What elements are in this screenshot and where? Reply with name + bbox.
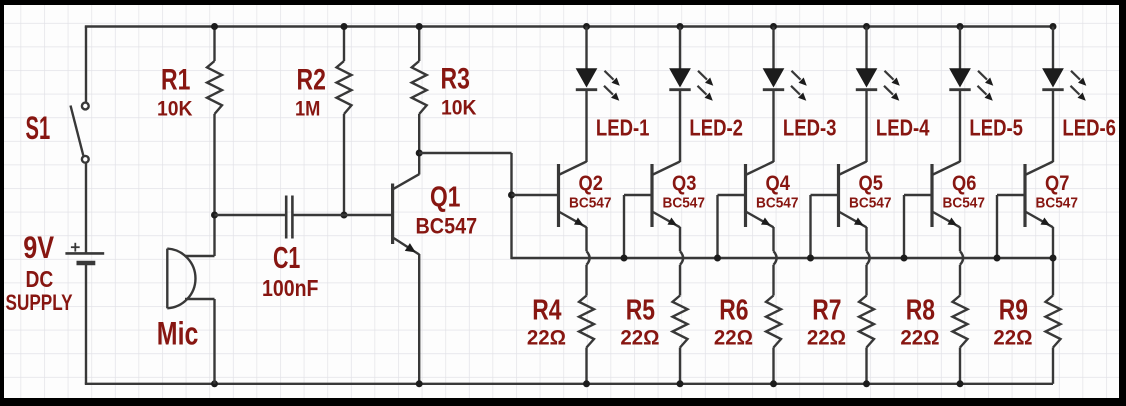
svg-text:22Ω: 22Ω [620,326,659,350]
svg-text:R3: R3 [441,62,470,95]
svg-text:LED-1: LED-1 [596,116,650,142]
svg-text:R4: R4 [532,293,562,326]
svg-text:LED-5: LED-5 [969,116,1023,142]
svg-text:22Ω: 22Ω [714,326,753,350]
svg-text:S1: S1 [26,110,51,146]
svg-text:BC547: BC547 [1036,195,1078,212]
svg-text:LED-2: LED-2 [689,116,743,142]
svg-text:9V: 9V [23,230,54,265]
svg-text:22Ω: 22Ω [993,326,1032,350]
svg-text:BC547: BC547 [663,195,705,212]
svg-text:LED-6: LED-6 [1062,116,1116,142]
svg-text:10K: 10K [441,96,477,120]
svg-text:Q2: Q2 [579,172,603,196]
svg-text:Mic: Mic [157,317,199,353]
svg-text:100nF: 100nF [262,276,318,302]
svg-text:BC547: BC547 [943,195,985,212]
svg-text:C1: C1 [273,240,300,275]
svg-text:R9: R9 [999,293,1028,326]
svg-text:22Ω: 22Ω [807,326,846,350]
svg-text:SUPPLY: SUPPLY [6,291,73,316]
svg-text:Q4: Q4 [766,172,790,196]
svg-text:10K: 10K [157,97,193,121]
svg-text:22Ω: 22Ω [527,326,566,350]
svg-text:BC547: BC547 [569,195,611,212]
svg-text:Q3: Q3 [672,172,696,196]
svg-text:Q6: Q6 [952,172,976,196]
svg-text:R7: R7 [812,293,841,326]
svg-text:R6: R6 [719,293,748,326]
svg-text:BC547: BC547 [756,195,798,212]
svg-text:R8: R8 [906,293,935,326]
svg-text:DC: DC [26,266,54,292]
svg-text:BC547: BC547 [849,195,891,212]
svg-text:22Ω: 22Ω [900,326,939,350]
svg-text:Q7: Q7 [1045,172,1069,196]
svg-text:R2: R2 [297,63,326,96]
svg-text:LED-3: LED-3 [783,116,837,142]
svg-text:1M: 1M [295,97,320,121]
svg-text:R5: R5 [626,293,655,326]
svg-text:R1: R1 [161,63,190,96]
svg-text:Q1: Q1 [430,182,460,213]
svg-text:BC547: BC547 [416,215,478,239]
svg-text:Q5: Q5 [859,172,883,196]
svg-text:LED-4: LED-4 [876,116,930,142]
